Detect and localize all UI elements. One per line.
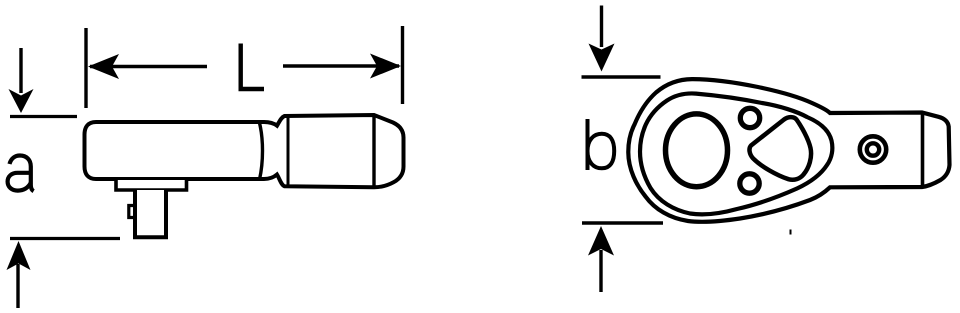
dimension L left arrowhead — [88, 54, 119, 79]
label b — [588, 119, 615, 170]
label L — [241, 44, 264, 90]
tang pin bump — [129, 206, 135, 218]
tube end arc line — [260, 123, 263, 180]
dimension a upper tick line — [10, 115, 77, 118]
dimension a upper arrowhead — [9, 89, 34, 113]
dimension a lower arrow shaft — [16, 264, 19, 308]
dimension b upper arrowhead — [589, 44, 615, 72]
pin circle outer — [860, 136, 886, 162]
ratchet pawl triangle — [749, 117, 811, 180]
label a — [8, 156, 34, 192]
dimension b upper tick line — [582, 75, 661, 78]
dimension L right extension line — [401, 26, 404, 104]
dimension b lower arrowhead — [588, 226, 614, 256]
handle end line — [372, 116, 375, 188]
tab/cap separator line — [921, 114, 925, 187]
ratchet side view body outline — [85, 115, 404, 187]
handle junction line — [287, 117, 290, 186]
pin circle inner — [867, 143, 879, 155]
socket opening big circle — [666, 114, 728, 187]
dimension b upper arrow shaft — [600, 6, 603, 48]
ratchet head inner contour — [640, 93, 832, 214]
square drive tang — [135, 190, 166, 237]
dimension L left extension line — [84, 28, 87, 108]
dimension b lower tick line — [582, 221, 663, 224]
dimension a lower arrowhead — [7, 241, 31, 270]
dimension L right arrowhead — [370, 54, 401, 79]
small circle top — [740, 108, 759, 127]
dimension a lower tick line — [10, 237, 120, 240]
small circle bottom — [740, 174, 759, 193]
dimension L line right segment — [283, 64, 399, 67]
stray speck — [790, 230, 792, 235]
dimension b lower arrow shaft — [599, 250, 602, 292]
dimension a upper arrow shaft — [19, 48, 22, 93]
dimension L line left segment — [90, 65, 207, 68]
ratchet head outer outline with tab — [628, 79, 949, 222]
square drive flange — [116, 180, 187, 190]
